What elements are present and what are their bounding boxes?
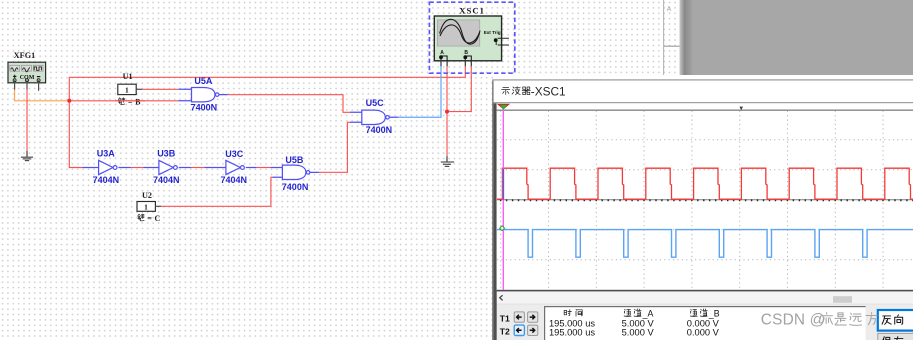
wire U3B to U3C: [191, 167, 204, 169]
title separator: [494, 102, 913, 103]
trigger position marker: [740, 107, 744, 111]
svg-text:= B: = B: [128, 98, 141, 107]
svg-text:T1: T1: [500, 313, 510, 323]
scope bottom panel: [497, 305, 913, 340]
oscilloscope XSC1 icon: [429, 2, 514, 73]
plot grid: [497, 111, 913, 291]
cursor T1/T2: [497, 104, 510, 290]
svg-text:U3A: U3A: [97, 149, 116, 159]
NAND gate U5B 7400N: [270, 155, 319, 192]
inverter U3C 7404N: [204, 149, 256, 185]
gray overlapping panel top right: [680, 0, 913, 79]
svg-text:5.000 V: 5.000 V: [622, 327, 655, 337]
svg-text:1: 1: [125, 85, 129, 94]
svg-text:= C: = C: [147, 214, 160, 223]
svg-text:U2: U2: [142, 191, 152, 200]
svg-text:CSDN @: CSDN @: [761, 312, 826, 329]
svg-text:7404N: 7404N: [221, 175, 248, 185]
svg-text:A: A: [440, 50, 444, 56]
oscilloscope window 示波器-XSC1: [492, 75, 913, 340]
channel A trace (red square wave): [497, 168, 913, 199]
label key = B: [118, 98, 141, 107]
inverter U3B 7404N: [144, 149, 192, 186]
svg-text:7404N: 7404N: [93, 175, 120, 185]
T2 row: [500, 325, 538, 337]
channel A zero axis with ticks: [497, 199, 913, 201]
window title 示波器-XSC1: [502, 85, 566, 99]
wire oscilloscope A- down to ground junction: [446, 66, 448, 156]
table values row 1: [549, 319, 720, 329]
NAND gate U5C 7400N: [350, 98, 398, 135]
junction node at ground net: [445, 110, 449, 114]
wire XFG1 plus to node (orange): [15, 90, 70, 101]
wire U3A to U3B: [131, 167, 144, 169]
svg-text:7400N: 7400N: [282, 182, 309, 192]
wire node down to U3A input: [69, 101, 82, 168]
wire node to oscilloscope B+ (top rail): [69, 66, 465, 101]
svg-text:U5A: U5A: [194, 76, 213, 86]
svg-text:XFG1: XFG1: [14, 51, 36, 60]
svg-text:7400N: 7400N: [191, 103, 218, 113]
scope scrollbar: [497, 291, 913, 304]
wire node to U5A lower input: [69, 100, 178, 102]
ground under XFG1: [21, 151, 33, 161]
svg-text:-XSC1: -XSC1: [531, 85, 566, 99]
switch U2 (key = C): [137, 191, 161, 211]
svg-text:_A: _A: [642, 308, 654, 318]
table headers 时间 通道_A 通道_B: [564, 308, 720, 318]
svg-text:U3B: U3B: [157, 149, 176, 159]
function generator XFG1: [8, 51, 46, 91]
svg-text:B: B: [464, 50, 468, 56]
wire U5C output to oscilloscope A+ (light blue): [398, 66, 441, 117]
channel B trace (blue pulse wave): [497, 230, 913, 258]
wire node to U5A lower input (overlay over label): [115, 100, 145, 102]
button 保存 (save): [878, 333, 913, 340]
wire U5A output to U5C upper input: [228, 95, 350, 113]
svg-text:T2: T2: [500, 327, 510, 337]
channel B reference marker: [500, 226, 505, 231]
svg-text:_B: _B: [708, 308, 720, 318]
svg-text:U5C: U5C: [366, 98, 385, 108]
button 反向 (reverse): [878, 310, 913, 331]
wire U1 to U5A upper input: [142, 88, 178, 90]
inverter U3A 7404N: [82, 149, 131, 186]
switch U1 (key = B): [118, 72, 143, 95]
svg-text:1: 1: [144, 202, 148, 211]
wire oscilloscope B- to ground junction: [447, 66, 471, 111]
wire XFG1 COM to ground: [26, 90, 28, 151]
measurement table: [544, 306, 866, 340]
svg-text:0.000 V: 0.000 V: [687, 327, 720, 337]
junction node at XFG1 output: [67, 99, 71, 103]
svg-text:7400N: 7400N: [366, 125, 393, 135]
table values row 2: [549, 327, 720, 337]
wire U2 to U5B lower input: [161, 177, 272, 206]
svg-text:7404N: 7404N: [153, 175, 180, 185]
svg-text:U3C: U3C: [225, 149, 244, 159]
wire U3C to U5B upper input: [257, 167, 271, 169]
label key = C: [138, 214, 161, 223]
svg-text:U5B: U5B: [285, 155, 304, 165]
svg-text:Ext Trig: Ext Trig: [484, 30, 501, 35]
T1 row: [500, 312, 538, 324]
NAND gate U5A 7400N: [178, 76, 228, 113]
svg-text:XSC1: XSC1: [459, 5, 485, 15]
svg-text:U1: U1: [123, 72, 133, 81]
schematic window edge artifacts: [664, 0, 680, 78]
svg-text:195.000 us: 195.000 us: [549, 327, 595, 337]
plot area: [497, 103, 913, 291]
watermark CSDN @亦是远方: [761, 312, 877, 329]
svg-text:A: A: [667, 6, 672, 13]
wire U5B output to U5C lower input: [319, 122, 350, 172]
ground under oscilloscope: [441, 156, 454, 166]
